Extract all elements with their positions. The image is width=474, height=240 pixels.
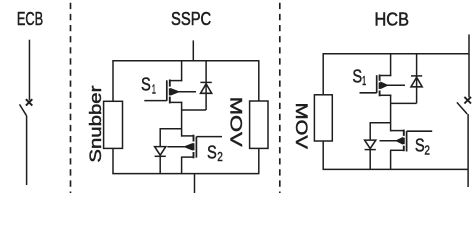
wire: D1 anode arm to source riser (SSPC)	[182, 109, 207, 111]
dashed separator between ECB and SSPC	[70, 0, 72, 193]
MOSFET S2 (SSPC): gate bar	[195, 137, 197, 158]
section label ECB	[17, 8, 43, 29]
label S2 (SSPC)	[207, 142, 223, 164]
wire: S2 top stub (SSPC)	[181, 135, 194, 137]
wire: S1 source stub and riser (SSPC)	[170, 102, 183, 137]
label S1 (SSPC)	[141, 75, 156, 97]
wire: HCB bottom bus	[323, 168, 469, 170]
wire: S2 bottom stub and riser (HCB)	[390, 150, 404, 170]
label S1 (HCB)	[352, 67, 366, 89]
diode D2 (HCB) cathode bar	[365, 149, 376, 151]
MOSFET S1 (HCB): channel bar segments	[379, 75, 381, 97]
MOSFET S1 (HCB): body arrow pointing right	[381, 82, 405, 88]
node: junction arm to D2 branch (SSPC)	[160, 128, 182, 130]
breaker contact x-mark (ECB)	[26, 99, 32, 105]
wire: S2 gate lead (SSPC)	[196, 136, 222, 138]
svg-text:ECB: ECB	[17, 8, 43, 29]
diode D1 (SSPC) triangle	[201, 84, 212, 94]
wire: snubber to bottom bus	[112, 148, 114, 173]
diode D2 (SSPC) cathode bar	[155, 155, 166, 157]
switch blade (ECB mechanical breaker)	[20, 104, 27, 115]
wire: S2 bottom stub and riser (SSPC)	[181, 157, 194, 174]
snubber box (SSPC)	[104, 101, 123, 148]
wire: ECB bottom feeder	[26, 116, 28, 185]
svg-text:2: 2	[217, 149, 223, 164]
svg-text:MOV: MOV	[292, 103, 310, 150]
MOSFET S1 (HCB): gate bar	[376, 75, 378, 93]
MOV box (HCB)	[314, 95, 332, 141]
diode D1 (HCB) cathode bar	[411, 75, 422, 77]
MOSFET S1 (SSPC): gate bar	[166, 80, 168, 101]
svg-text:1: 1	[362, 73, 366, 88]
wire: D2 branch down (HCB)	[369, 123, 371, 140]
wire: D1 vertical (SSPC)	[205, 61, 207, 110]
MOSFET S1 (SSPC): channel bar segments	[169, 80, 171, 104]
wire: S1 source stub and riser (HCB)	[379, 95, 391, 132]
wire: S1 gate lead (HCB)	[360, 92, 377, 94]
MOSFET S2 (HCB): channel bar segments	[403, 130, 405, 152]
wire: D2 to bottom bus (SSPC)	[159, 156, 161, 173]
svg-text:2: 2	[424, 142, 430, 157]
switch blade (HCB mechanical breaker)	[457, 102, 467, 114]
diode D2 (HCB) triangle pointing down	[365, 140, 376, 149]
svg-text:SSPC: SSPC	[171, 8, 211, 29]
wire: SSPC output stub	[194, 174, 196, 193]
svg-text:S: S	[415, 136, 425, 156]
wire: SSPC right branch (to MOV)	[258, 61, 260, 101]
wire: D1 vertical (HCB)	[416, 54, 418, 104]
section label HCB	[375, 8, 410, 29]
breaker contact x-mark (HCB)	[464, 97, 471, 104]
wire: HCB main line bottom	[467, 114, 469, 187]
wire: D1 anode arm to source riser (HCB)	[391, 102, 417, 104]
label S2 (HCB)	[415, 136, 430, 158]
diode D1 (HCB) triangle	[411, 77, 422, 87]
dashed separator between SSPC and HCB	[279, 0, 281, 193]
svg-text:S: S	[141, 75, 151, 95]
label MOV (rotated, HCB)	[292, 103, 310, 150]
MOSFET S2 (HCB): body arrow pointing left	[380, 138, 403, 144]
wire: SSPC input stub	[192, 40, 194, 61]
wire: SSPC left branch (to snubber)	[112, 61, 114, 102]
node: junction arm to D2 branch (HCB)	[370, 122, 391, 124]
wire: D2 to bottom bus (HCB)	[369, 150, 371, 170]
diode D1 (SSPC) cathode bar	[200, 81, 211, 83]
svg-text:Snubber: Snubber	[86, 85, 105, 162]
section label SSPC	[171, 8, 211, 29]
wire: SSPC top bus	[112, 60, 259, 62]
svg-text:HCB: HCB	[375, 8, 410, 29]
label MOV (rotated, SSPC)	[227, 97, 246, 148]
wire: S1 drain riser (HCB)	[379, 54, 391, 76]
wire: HCB top bus	[323, 53, 470, 55]
wire: MOV to bottom bus (HCB)	[322, 141, 324, 170]
svg-text:MOV: MOV	[227, 97, 246, 148]
wire: SSPC bottom bus	[112, 173, 259, 175]
svg-text:1: 1	[152, 81, 156, 96]
MOV box (SSPC)	[250, 101, 268, 148]
MOSFET S1 (SSPC): body arrow pointing right	[171, 89, 196, 95]
wire: D2 branch down (SSPC)	[159, 129, 161, 147]
svg-text:S: S	[352, 67, 362, 87]
svg-text:S: S	[207, 142, 217, 162]
wire: HCB left branch (to MOV)	[322, 54, 324, 95]
MOSFET S2 (HCB): gate bar	[406, 131, 408, 151]
label Snubber (rotated)	[86, 85, 105, 162]
wire: S2 top stub (HCB)	[390, 130, 404, 132]
MOSFET S2 (SSPC): body arrow pointing left	[167, 144, 192, 150]
diode D2 (SSPC) triangle pointing down	[155, 147, 166, 156]
wire: S1 gate lead (SSPC)	[144, 100, 167, 102]
wire: S1 drain riser (SSPC)	[170, 61, 183, 82]
MOSFET S2 (SSPC): channel bar segments	[193, 135, 195, 159]
wire: S2 gate lead (HCB)	[407, 130, 433, 132]
wire: MOV to bottom bus (SSPC)	[258, 148, 260, 173]
wire: HCB main line top	[468, 34, 470, 97]
wire: ECB top feeder	[28, 40, 30, 101]
